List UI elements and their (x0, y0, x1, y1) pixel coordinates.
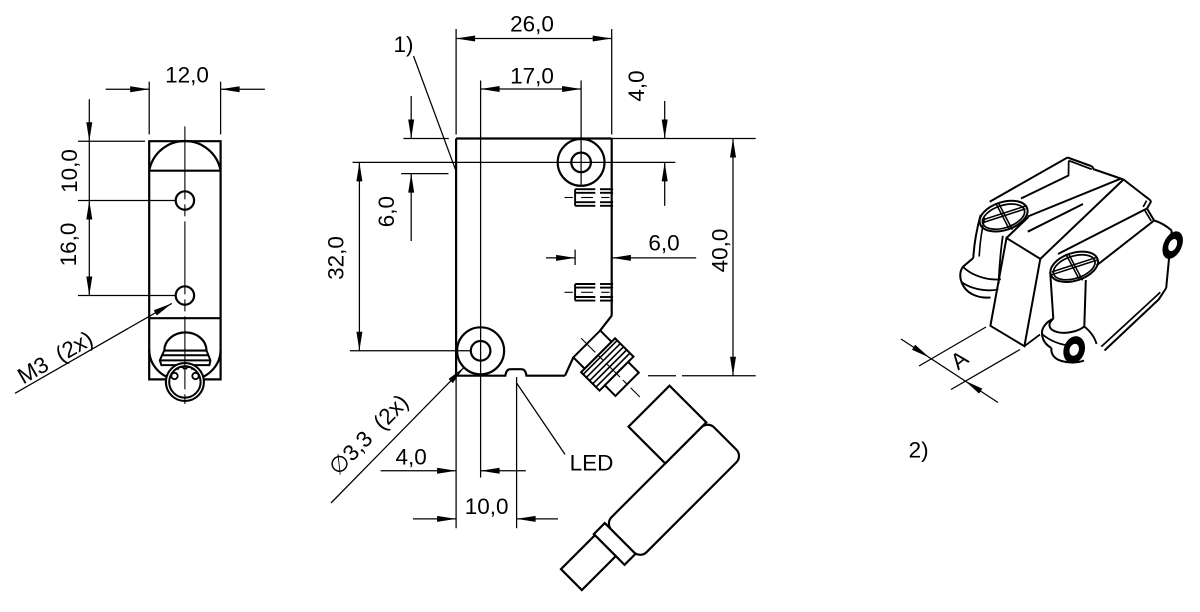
svg-text:26,0: 26,0 (510, 11, 554, 36)
svg-text:17,0: 17,0 (510, 64, 554, 89)
svg-text:2): 2) (909, 437, 929, 462)
svg-text:A: A (946, 346, 973, 375)
svg-text:16,0: 16,0 (56, 223, 81, 267)
svg-text:10,0: 10,0 (465, 494, 509, 519)
svg-text:6,0: 6,0 (648, 230, 679, 255)
svg-text:40,0: 40,0 (708, 229, 733, 273)
svg-text:1): 1) (393, 32, 413, 57)
svg-text:M3 (2x): M3 (2x) (13, 326, 97, 389)
svg-text:12,0: 12,0 (165, 62, 209, 87)
svg-text:4,0: 4,0 (396, 444, 427, 469)
svg-text:32,0: 32,0 (324, 236, 349, 280)
svg-text:6,0: 6,0 (374, 196, 399, 227)
svg-text:LED: LED (570, 451, 614, 476)
svg-text:10,0: 10,0 (57, 149, 82, 193)
svg-text:4,0: 4,0 (624, 70, 649, 101)
